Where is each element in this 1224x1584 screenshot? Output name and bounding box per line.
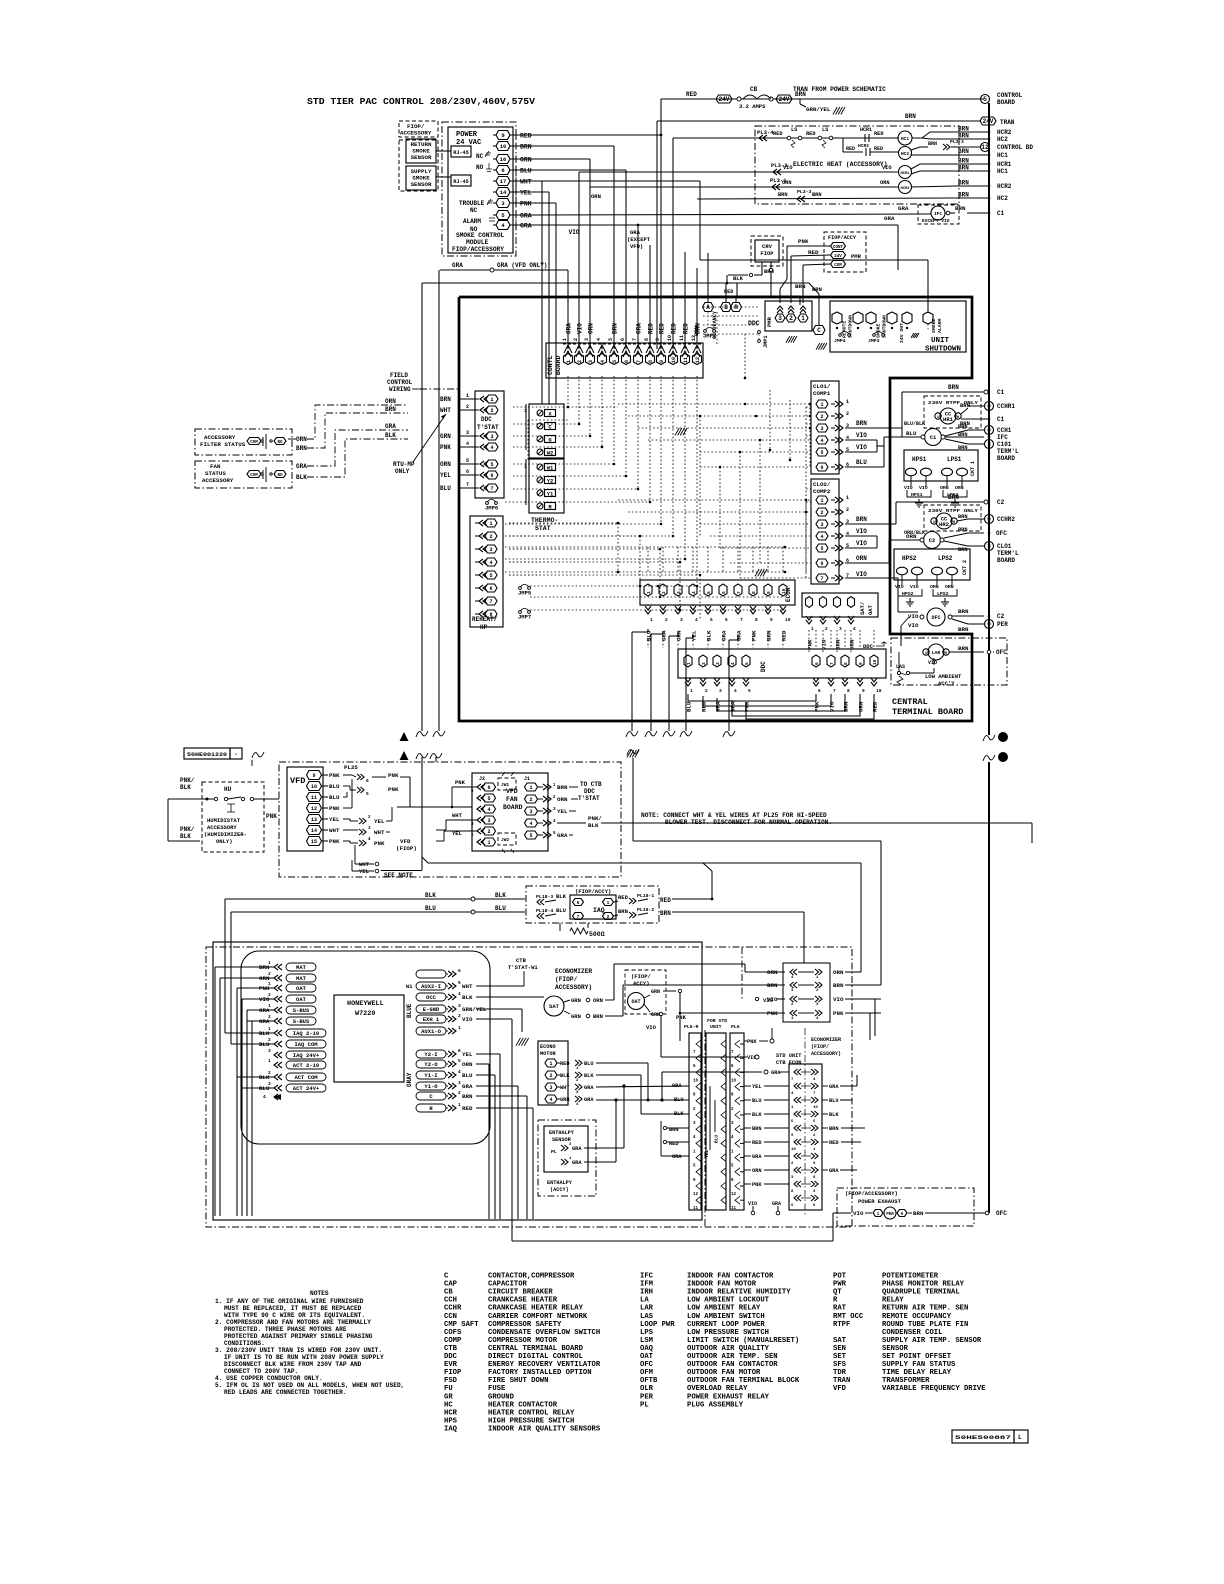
svg-text:VIO: VIO [853, 1210, 864, 1217]
svg-text:BLK: BLK [425, 892, 436, 899]
svg-text:VFD: VFD [400, 838, 411, 845]
svg-text:CB: CB [750, 86, 758, 93]
svg-text:ORN: ORN [945, 584, 954, 590]
svg-text:OUTDOOR AIR QUALITY: OUTDOOR AIR QUALITY [687, 1345, 770, 1353]
svg-text:-: - [234, 751, 238, 758]
svg-text:BLU: BLU [856, 459, 867, 466]
svg-text:7: 7 [489, 599, 492, 605]
svg-text:HCR2: HCR2 [997, 129, 1012, 136]
svg-text:2: 2 [489, 534, 492, 540]
svg-text:WHT: WHT [359, 861, 370, 868]
svg-text:VIO: VIO [856, 444, 867, 451]
svg-text:CIRCUIT BREAKER: CIRCUIT BREAKER [488, 1289, 553, 1297]
svg-text:HC2: HC2 [997, 136, 1008, 143]
svg-text:VIO: VIO [783, 165, 793, 171]
svg-text:2. COMPRESSOR AND FAN MOTORS A: 2. COMPRESSOR AND FAN MOTORS ARE THERMAL… [215, 1319, 371, 1326]
svg-text:ORN: ORN [593, 997, 603, 1004]
svg-text:PNK: PNK [329, 772, 340, 779]
svg-text:5: 5 [710, 617, 713, 623]
svg-text:4: 4 [596, 338, 602, 341]
svg-text:RED: RED [686, 91, 697, 98]
svg-text:OAT: OAT [296, 985, 307, 992]
svg-text:WHT: WHT [520, 179, 532, 186]
svg-text:HCR1: HCR1 [860, 127, 872, 133]
svg-text:BLU: BLU [584, 1061, 594, 1067]
svg-text:4: 4 [458, 991, 461, 997]
svg-text:ALARM: ALARM [463, 218, 481, 225]
svg-text:RJ-45: RJ-45 [453, 179, 469, 185]
svg-text:PL18-1: PL18-1 [637, 893, 654, 899]
svg-text:FIOP: FIOP [760, 250, 774, 257]
svg-text:T'STAT: T'STAT [578, 795, 600, 802]
svg-text:8: 8 [843, 662, 849, 665]
svg-text:ECON: ECON [785, 587, 792, 602]
svg-text:NO: NO [277, 441, 283, 445]
svg-text:BRN: BRN [905, 113, 916, 120]
svg-text:VIO: VIO [569, 229, 580, 236]
svg-text:JMP5: JMP5 [518, 590, 532, 597]
svg-text:NC: NC [470, 207, 478, 214]
svg-text:VIO: VIO [895, 584, 904, 590]
svg-text:LSM: LSM [640, 1337, 653, 1345]
svg-text:BLK: BLK [829, 1112, 839, 1118]
svg-text:BRN: BRN [856, 516, 867, 523]
svg-text:7: 7 [820, 576, 823, 582]
svg-text:RELAY: RELAY [882, 1297, 904, 1305]
svg-text:WIRING: WIRING [389, 386, 411, 393]
svg-text:R: R [734, 304, 738, 311]
svg-text:SMOKE: SMOKE [876, 323, 882, 338]
svg-text:HC2: HC2 [997, 195, 1008, 202]
svg-text:IAQ 24V+: IAQ 24V+ [293, 1052, 320, 1059]
svg-text:QT: QT [833, 1289, 842, 1297]
svg-text:BLU: BLU [556, 907, 566, 914]
svg-text:1: 1 [268, 960, 271, 966]
svg-text:ORN: ORN [906, 533, 917, 540]
svg-text:2: 2 [268, 971, 271, 977]
svg-text:BRN: BRN [958, 165, 969, 172]
svg-text:POWER: POWER [456, 131, 478, 139]
svg-text:RMT OCC: RMT OCC [833, 1313, 864, 1321]
svg-text:OFC: OFC [996, 1210, 1007, 1217]
svg-text:BRN: BRN [843, 701, 850, 712]
svg-text:CRV: CRV [762, 243, 773, 250]
svg-text:5: 5 [820, 546, 823, 552]
svg-text:STATUS: STATUS [205, 470, 226, 477]
svg-text:11: 11 [679, 335, 685, 341]
svg-text:BLU: BLU [495, 905, 506, 912]
svg-text:BLOWER TEST. DISCONNECT FOR NO: BLOWER TEST. DISCONNECT FOR NORMAL OPERA… [665, 819, 832, 826]
svg-text:JMP1: JMP1 [763, 336, 769, 348]
svg-text:ORN: ORN [296, 436, 307, 443]
svg-text:4: 4 [529, 821, 532, 827]
svg-text:BRN: BRN [462, 1093, 473, 1100]
svg-text:2: 2 [268, 992, 271, 998]
svg-text:BRN: BRN [856, 420, 867, 427]
svg-text:ECONOMIZER: ECONOMIZER [811, 1037, 841, 1043]
svg-text:CCH1: CCH1 [997, 427, 1012, 434]
svg-text:2: 2 [789, 315, 793, 322]
svg-text:STD TIER PAC CONTROL 208/230V,: STD TIER PAC CONTROL 208/230V,460V,575V [307, 96, 535, 107]
svg-text:GRA: GRA [520, 213, 532, 220]
svg-text:1: 1 [566, 360, 572, 363]
svg-text:2: 2 [466, 404, 469, 410]
svg-text:4: 4 [549, 1097, 552, 1103]
svg-text:4. USE COPPER CONDUCTOR ONLY.: 4. USE COPPER CONDUCTOR ONLY. [215, 1375, 323, 1382]
svg-text:GRA: GRA [296, 463, 307, 470]
svg-text:BRN: BRN [829, 1126, 839, 1132]
svg-text:POWER EXHAUST: POWER EXHAUST [858, 1198, 902, 1205]
svg-text:DDC: DDC [748, 320, 760, 327]
svg-text:VIO: VIO [856, 540, 867, 547]
svg-text:2: 2 [846, 411, 849, 417]
svg-text:TDR: TDR [833, 1369, 847, 1377]
svg-text:BRN: BRN [618, 908, 628, 915]
svg-text:6: 6 [721, 591, 727, 594]
svg-text:TROUBLE: TROUBLE [459, 200, 485, 207]
svg-text:PL6-R: PL6-R [684, 1024, 699, 1030]
svg-text:5: 5 [458, 1058, 461, 1064]
svg-text:BLU: BLU [829, 1098, 839, 1104]
svg-text:1: 1 [458, 1025, 461, 1031]
svg-text:CENTRAL TERMINAL BOARD: CENTRAL TERMINAL BOARD [488, 1345, 584, 1353]
svg-text:SAT: SAT [549, 1003, 560, 1010]
svg-text:GRA: GRA [520, 223, 532, 230]
svg-text:VIO: VIO [856, 432, 867, 439]
svg-text:ENTHALPY: ENTHALPY [547, 1180, 573, 1186]
svg-text:CONDENSER COIL: CONDENSER COIL [882, 1329, 942, 1337]
svg-text:7: 7 [632, 338, 638, 341]
svg-text:1: 1 [268, 1003, 271, 1009]
svg-text:5: 5 [466, 458, 469, 464]
svg-text:DISCONNECT BLK WIRE FROM 230V: DISCONNECT BLK WIRE FROM 230V TAP AND [224, 1361, 362, 1368]
svg-text:C: C [817, 327, 821, 334]
svg-text:AUX2-I: AUX2-I [421, 983, 441, 990]
svg-text:24V: 24V [983, 118, 994, 125]
svg-text:YEL: YEL [520, 190, 532, 197]
svg-text:3. 208/230V UNIT TRAN IS WIRED: 3. 208/230V UNIT TRAN IS WIRED FOR 230V … [215, 1347, 382, 1354]
svg-text:FIOP/ACCESSORY: FIOP/ACCESSORY [452, 246, 504, 253]
svg-text:SET: SET [833, 1353, 847, 1361]
svg-text:HUMIDISTAT: HUMIDISTAT [207, 817, 241, 824]
svg-text:BRN: BRN [693, 326, 700, 336]
svg-text:CONNECT TO 200V TAP.: CONNECT TO 200V TAP. [224, 1368, 298, 1375]
svg-text:6: 6 [458, 1048, 461, 1054]
svg-text:YEL: YEL [691, 630, 698, 641]
svg-text:BLK: BLK [180, 833, 191, 840]
svg-text:PNK: PNK [266, 813, 277, 820]
svg-text:GRA (VFD ONLY): GRA (VFD ONLY) [497, 262, 547, 269]
svg-text:GRA: GRA [462, 1083, 473, 1090]
svg-text:10: 10 [872, 659, 878, 665]
svg-text:8: 8 [755, 617, 758, 623]
svg-text:TRAN FROM POWER SCHEMATIC: TRAN FROM POWER SCHEMATIC [793, 86, 886, 93]
svg-text:BLU/BLK: BLU/BLK [904, 421, 925, 427]
svg-text:OAT: OAT [640, 1353, 654, 1361]
svg-text:FOR STD: FOR STD [707, 1018, 727, 1024]
svg-text:J1: J1 [524, 776, 530, 782]
svg-text:3: 3 [549, 1085, 552, 1091]
svg-text:TERM'L: TERM'L [997, 550, 1019, 557]
svg-text:BRN: BRN [557, 784, 568, 791]
svg-text:CCHR: CCHR [444, 1305, 462, 1313]
svg-text:1: 1 [820, 402, 823, 408]
svg-text:LPS2: LPS2 [938, 555, 953, 562]
svg-text:BRN: BRN [958, 547, 968, 553]
svg-text:BRN: BRN [958, 126, 969, 133]
svg-text:TERMINAL BOARD: TERMINAL BOARD [892, 707, 963, 717]
svg-text:BRN: BRN [958, 158, 969, 165]
svg-text:CAPACITOR: CAPACITOR [488, 1281, 528, 1289]
svg-text:YEL: YEL [374, 818, 385, 825]
svg-text:VIO: VIO [919, 485, 928, 491]
svg-text:CB: CB [444, 1289, 453, 1297]
svg-text:JMP6: JMP6 [485, 505, 498, 512]
svg-text:3: 3 [458, 1080, 461, 1086]
svg-text:1: 1 [646, 591, 652, 594]
svg-text:BRN: BRN [520, 144, 532, 151]
svg-text:CONTL: CONTL [547, 355, 554, 375]
svg-text:0: 0 [987, 516, 991, 523]
svg-text:4: 4 [695, 617, 698, 623]
svg-text:2: 2 [820, 510, 823, 516]
svg-text:CENTRAL: CENTRAL [892, 697, 928, 707]
svg-text:RED: RED [683, 323, 690, 334]
svg-text:HIGH PRESSURE SWITCH: HIGH PRESSURE SWITCH [488, 1417, 574, 1425]
svg-text:SFS: SFS [833, 1361, 847, 1369]
svg-text:12: 12 [311, 806, 317, 812]
svg-text:1: 1 [690, 688, 693, 694]
svg-text:(HUMIDIMIZER-: (HUMIDIMIZER- [204, 831, 247, 838]
svg-text:BRN: BRN [778, 192, 788, 198]
svg-text:ORN: ORN [955, 485, 964, 491]
svg-text:C1: C1 [997, 210, 1005, 217]
svg-text:TO CTB: TO CTB [580, 781, 602, 788]
svg-text:HCR2: HCR2 [997, 183, 1012, 190]
svg-text:ORN: ORN [782, 180, 792, 186]
svg-text:2: 2 [577, 360, 583, 363]
svg-text:VIO: VIO [821, 639, 828, 650]
svg-text:GRN: GRN [440, 433, 451, 440]
svg-text:6: 6 [814, 662, 820, 665]
svg-text:ORN: ORN [385, 398, 396, 405]
svg-text:COMP: COMP [444, 1337, 462, 1345]
svg-text:YEL: YEL [359, 868, 370, 875]
svg-text:OFC: OFC [996, 530, 1007, 537]
svg-text:7: 7 [740, 617, 743, 623]
svg-text:Y2: Y2 [547, 477, 554, 484]
svg-text:FAN: FAN [506, 796, 518, 803]
svg-text:C2: C2 [997, 613, 1005, 620]
svg-text:REHEAT/: REHEAT/ [472, 616, 498, 623]
svg-text:GRA: GRA [566, 323, 573, 334]
svg-text:GRA: GRA [672, 1154, 682, 1160]
svg-text:6: 6 [458, 968, 461, 974]
svg-text:COMP1: COMP1 [813, 390, 831, 397]
svg-text:EXCEPT VIO: EXCEPT VIO [922, 218, 950, 224]
svg-text:B: B [724, 304, 728, 311]
svg-text:DIRECT DIGITAL CONTROL: DIRECT DIGITAL CONTROL [488, 1353, 583, 1361]
svg-text:ACCESSORY): ACCESSORY) [555, 984, 592, 991]
svg-text:JMP7: JMP7 [518, 614, 531, 621]
svg-text:BRN: BRN [958, 626, 969, 633]
svg-text:BOARD: BOARD [503, 804, 523, 811]
svg-text:BRN: BRN [385, 406, 396, 413]
svg-text:GRN: GRN [571, 997, 581, 1004]
svg-text:17: 17 [500, 178, 507, 185]
svg-text:PNK: PNK [752, 1182, 762, 1188]
svg-text:HCR1: HCR1 [900, 172, 910, 176]
svg-text:THERMO-: THERMO- [531, 517, 558, 524]
svg-text:FSD: FSD [444, 1377, 458, 1385]
svg-text:CCH: CCH [444, 1297, 457, 1305]
svg-text:BRN: BRN [833, 982, 844, 989]
svg-text:BLU: BLU [752, 1098, 762, 1104]
svg-text:HPS2: HPS2 [902, 591, 914, 597]
svg-text:VIO: VIO [748, 1201, 757, 1207]
svg-text:(FIOP/: (FIOP/ [631, 973, 652, 980]
svg-text:VFD: VFD [290, 776, 305, 786]
svg-text:BLU: BLU [674, 1097, 684, 1103]
svg-text:2: 2 [665, 617, 668, 623]
svg-text:PNK/: PNK/ [588, 815, 602, 822]
svg-text:BRN: BRN [812, 192, 822, 198]
svg-text:C: C [444, 1273, 449, 1281]
svg-text:CLO1: CLO1 [997, 543, 1012, 550]
svg-text:YEL: YEL [557, 808, 568, 815]
svg-text:1: 1 [490, 397, 493, 403]
svg-text:W7220: W7220 [355, 1010, 375, 1018]
svg-text:PNK: PNK [676, 1014, 687, 1021]
svg-text:CTB: CTB [516, 957, 527, 964]
svg-text:INDOOR AIR QUALITY SENSORS: INDOOR AIR QUALITY SENSORS [488, 1425, 601, 1433]
svg-text:PROTECTED AGAINST PRIMARY SING: PROTECTED AGAINST PRIMARY SINGLE PHASING [224, 1333, 373, 1340]
svg-text:5. IFM OL IS NOT USED ON ALL M: 5. IFM OL IS NOT USED ON ALL MODELS, WHE… [215, 1382, 404, 1389]
svg-text:BRN: BRN [948, 494, 959, 501]
svg-text:T'STAT-W1: T'STAT-W1 [508, 964, 538, 971]
svg-text:BLK: BLK [674, 1111, 684, 1117]
svg-text:LS: LS [822, 127, 829, 133]
svg-text:PER: PER [640, 1393, 654, 1401]
svg-text:ORN: ORN [930, 584, 939, 590]
svg-text:NOTE: CONNECT WHT & YEL WIRES: NOTE: CONNECT WHT & YEL WIRES AT PL25 FO… [641, 812, 827, 819]
svg-text:RTPF: RTPF [833, 1321, 850, 1329]
svg-text:PNK: PNK [440, 444, 451, 451]
svg-text:BRN: BRN [795, 283, 806, 290]
svg-text:ONLY: ONLY [395, 468, 410, 475]
svg-text:3: 3 [588, 360, 594, 363]
svg-text:W1: W1 [406, 983, 413, 990]
svg-text:BRN: BRN [812, 286, 822, 293]
svg-text:PROTECTED. THREE PHASE MOTORS: PROTECTED. THREE PHASE MOTORS ARE [224, 1326, 347, 1333]
svg-text:2: 2 [705, 688, 708, 694]
svg-text:1: 1 [549, 1061, 552, 1067]
svg-text:BRN: BRN [766, 630, 773, 641]
svg-text:6: 6 [366, 778, 369, 784]
svg-text:(FIOP/ACCESSORY): (FIOP/ACCESSORY) [845, 1190, 898, 1197]
svg-text:PMR: PMR [766, 316, 773, 327]
svg-text:VFD: VFD [506, 788, 518, 795]
svg-text:BOARD: BOARD [997, 99, 1015, 106]
svg-text:PLUG ASSEMBLY: PLUG ASSEMBLY [687, 1401, 744, 1409]
svg-text:PNK: PNK [807, 639, 814, 650]
svg-text:COFS: COFS [444, 1329, 462, 1337]
svg-text:BRN: BRN [958, 180, 969, 187]
svg-text:BRN: BRN [958, 432, 968, 438]
svg-text:4: 4 [691, 591, 697, 594]
svg-text:2: 2 [661, 591, 667, 594]
svg-text:HPS1: HPS1 [911, 492, 923, 498]
svg-text:PL3-4: PL3-4 [757, 129, 774, 136]
svg-text:PL18-4: PL18-4 [536, 908, 553, 914]
svg-text:2: 2 [701, 662, 707, 665]
svg-text:GRA: GRA [752, 1154, 762, 1160]
svg-text:GRA: GRA [557, 832, 568, 839]
svg-text:1: 1 [489, 521, 492, 527]
svg-text:PNK: PNK [833, 1010, 844, 1017]
svg-text:VIO: VIO [856, 571, 867, 578]
svg-text:WHT: WHT [462, 983, 473, 990]
svg-text:ORN: ORN [833, 969, 844, 976]
svg-text:ORN: ORN [591, 193, 601, 200]
svg-text:2: 2 [825, 626, 828, 632]
svg-text:BLU: BLU [462, 1072, 473, 1079]
svg-text:6: 6 [489, 586, 492, 592]
svg-text:IAQ COM: IAQ COM [294, 1041, 318, 1048]
svg-text:3: 3 [719, 688, 722, 694]
svg-text:ACT COM: ACT COM [294, 1074, 318, 1081]
svg-text:EXH 1: EXH 1 [423, 1016, 440, 1023]
svg-text:WHT: WHT [329, 827, 340, 834]
svg-text:GR: GR [444, 1393, 453, 1401]
svg-text:POWER EXHAUST RELAY: POWER EXHAUST RELAY [687, 1393, 770, 1401]
svg-text:HEATER CONTACTOR: HEATER CONTACTOR [488, 1401, 558, 1409]
svg-text:STD UNIT: STD UNIT [776, 1053, 802, 1059]
svg-text:MODULE: MODULE [466, 239, 489, 246]
svg-text:BLU: BLU [906, 430, 917, 437]
svg-text:3: 3 [987, 543, 991, 550]
svg-text:HR2: HR2 [939, 521, 949, 528]
svg-text:7: 7 [829, 662, 835, 665]
svg-text:1: 1 [268, 1058, 271, 1064]
svg-text:RED: RED [618, 894, 629, 901]
svg-text:0: 0 [987, 621, 991, 628]
svg-text:GRN/YEL: GRN/YEL [806, 106, 831, 113]
svg-text:BRN: BRN [752, 1126, 762, 1132]
svg-text:LOW AMBIENT: LOW AMBIENT [925, 673, 962, 680]
svg-text:LAS: LAS [640, 1313, 654, 1321]
svg-text:RED: RED [560, 1061, 570, 1067]
svg-text:GRA: GRA [672, 1083, 682, 1089]
svg-text:C2: C2 [929, 537, 936, 544]
svg-text:LAS: LAS [896, 664, 905, 670]
svg-text:DDC: DDC [584, 788, 595, 795]
svg-text:LOW AMBIENT RELAY: LOW AMBIENT RELAY [687, 1305, 761, 1313]
svg-text:BRN: BRN [958, 645, 969, 652]
svg-text:6: 6 [725, 617, 728, 623]
svg-text:BLK: BLK [733, 275, 744, 282]
svg-text:JW2: JW2 [501, 837, 509, 843]
svg-text:SENSOR: SENSOR [882, 1345, 909, 1353]
svg-text:TRAN: TRAN [1000, 119, 1015, 126]
svg-text:2: 2 [846, 507, 849, 513]
svg-text:RED: RED [806, 131, 816, 137]
svg-text:DDC: DDC [863, 643, 874, 650]
svg-text:DDC: DDC [760, 661, 767, 672]
svg-text:REMOTE OCCUPANCY: REMOTE OCCUPANCY [882, 1313, 952, 1321]
svg-text:MOTOR: MOTOR [540, 1051, 556, 1057]
svg-text:9: 9 [312, 773, 315, 779]
